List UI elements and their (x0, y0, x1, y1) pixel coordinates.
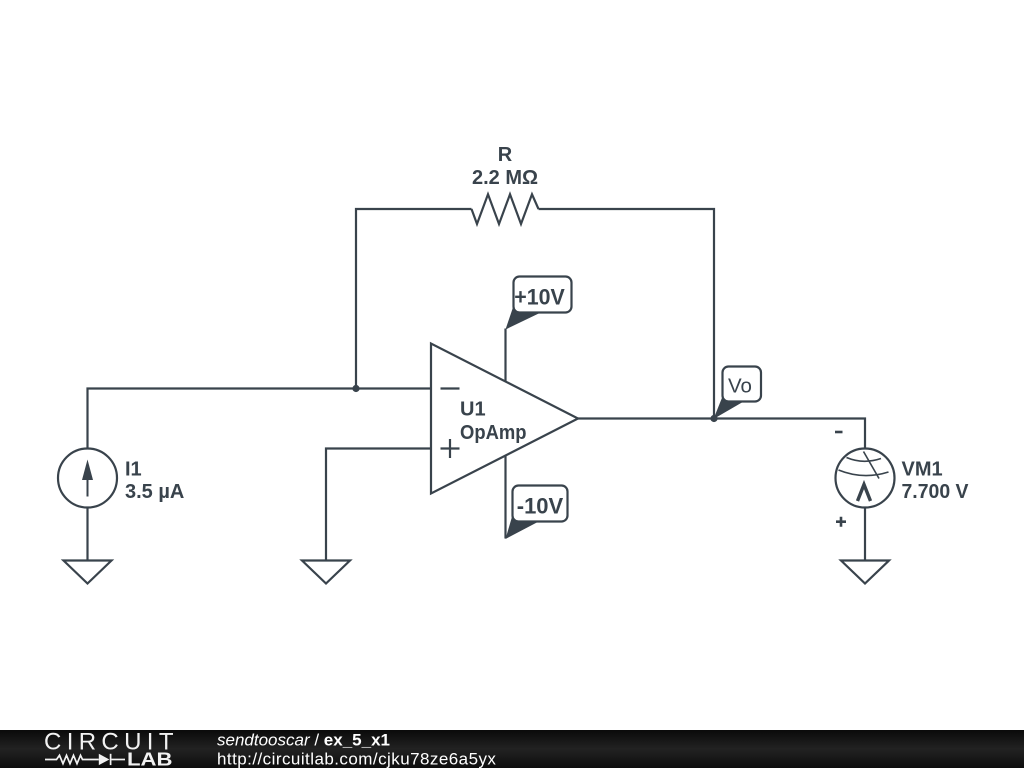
wire non-inverting input to ground (326, 449, 431, 561)
svg-text:Vo: Vo (728, 375, 752, 398)
node name flag Vo (714, 367, 762, 420)
op-amp U1 triangle (431, 344, 578, 494)
svg-text:-10V: -10V (517, 494, 564, 519)
voltmeter V glyph (858, 485, 871, 502)
wire output (578, 419, 865, 449)
svg-text:2.2 MΩ: 2.2 MΩ (472, 167, 538, 189)
voltmeter minus terminal sign (835, 431, 843, 434)
svg-text:+10V: +10V (514, 285, 565, 310)
op-amp plus input sign (441, 439, 460, 458)
ground under VM1 (841, 561, 889, 584)
CircuitLab logo resistor-diode glyph (45, 754, 125, 765)
-10V supply flag (506, 486, 568, 540)
wire VM1 to ground (864, 508, 866, 561)
svg-text:7.700 V: 7.700 V (902, 481, 970, 503)
ground under I1 (64, 561, 112, 584)
voltmeter VM1 circle (836, 449, 895, 508)
resistor R zigzag (472, 194, 539, 224)
voltmeter scale arcs (847, 458, 882, 462)
wire input from I1 to op-amp inverting input (88, 389, 432, 449)
node junction at output Vo (710, 415, 717, 422)
wire feedback left vertical (356, 209, 472, 389)
svg-text:R: R (498, 144, 513, 166)
current source I1 arrow (87, 474, 89, 497)
ground at non-inverting input (302, 561, 350, 584)
wire I1 to ground (86, 508, 88, 561)
wire feedback right segment (539, 209, 715, 419)
svg-text:sendtooscar / ex_5_x1: sendtooscar / ex_5_x1 (217, 730, 390, 749)
svg-text:VM1: VM1 (902, 458, 943, 480)
voltmeter plus terminal sign (836, 517, 846, 527)
wire -10V supply (504, 455, 506, 539)
svg-text:http://circuitlab.com/cjku78ze: http://circuitlab.com/cjku78ze6a5yx (217, 750, 496, 768)
op-amp minus input sign (441, 387, 460, 389)
current source I1 circle (58, 449, 117, 508)
svg-text:LAB: LAB (127, 750, 173, 768)
+10V supply flag (506, 277, 572, 330)
svg-text:3.5 µA: 3.5 µA (125, 481, 184, 503)
svg-text:U1: U1 (460, 399, 486, 421)
svg-text:I1: I1 (125, 459, 142, 481)
wire +10V supply (504, 329, 506, 382)
voltmeter needle (864, 452, 880, 479)
svg-text:OpAmp: OpAmp (460, 422, 527, 444)
node junction at inverting input (352, 385, 359, 392)
